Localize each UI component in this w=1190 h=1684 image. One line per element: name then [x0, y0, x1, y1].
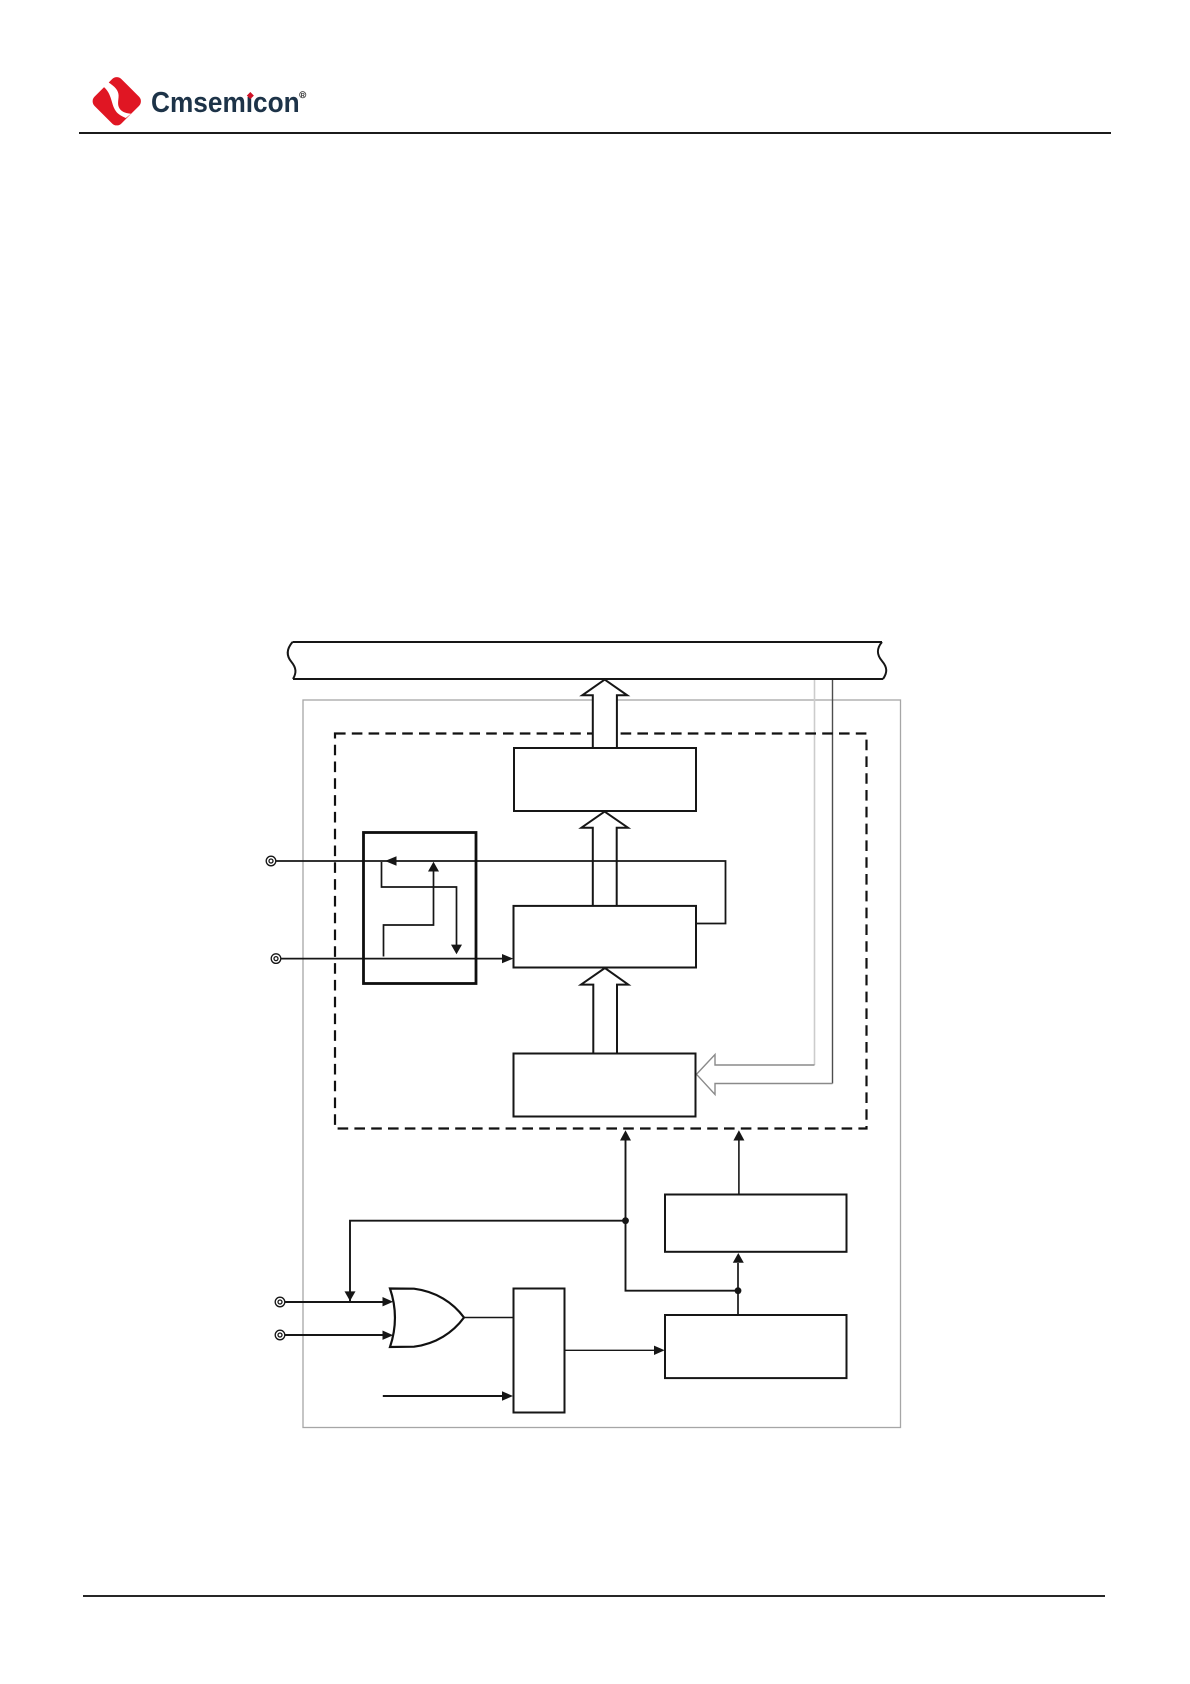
- clock request net: [737, 1263, 739, 1315]
- control block lower right: [665, 1315, 847, 1378]
- block arrow low: [581, 968, 628, 1054]
- junction dot B: [735, 1287, 742, 1294]
- swap path upper arrowhead: [451, 945, 462, 955]
- net line2 arrowhead: [502, 954, 513, 963]
- open block arrow into data register: [697, 1055, 833, 1095]
- peripheral outer boundary: [303, 700, 901, 1428]
- net line1: [276, 861, 726, 924]
- header rule: [79, 132, 1111, 134]
- net line2: [281, 958, 503, 960]
- logo i-dot diamond: [247, 92, 254, 99]
- module dashed boundary: [335, 734, 867, 1129]
- net line4: [285, 1334, 383, 1336]
- logo mark: [88, 72, 150, 134]
- pin terminal 3: [275, 1297, 285, 1307]
- block arrow to bus: [582, 680, 627, 748]
- swap path lower: [384, 872, 434, 957]
- net line3 arrowhead: [383, 1297, 394, 1306]
- bus tap wire light: [814, 680, 816, 1065]
- control block upper right: [665, 1195, 847, 1252]
- swap path upper: [382, 862, 457, 945]
- clock source arrowhead: [502, 1391, 513, 1400]
- junction dot A: [622, 1217, 629, 1224]
- clock source input net: [383, 1395, 503, 1397]
- prescaler output net: [565, 1349, 655, 1351]
- status net to dashed box: [738, 1141, 740, 1195]
- block arrow mid: [581, 812, 628, 906]
- register block top: [514, 748, 696, 811]
- net line4 arrowhead: [383, 1331, 394, 1340]
- pin terminal 4: [275, 1330, 285, 1340]
- feedback arrowhead: [345, 1291, 356, 1301]
- or gate U1: [390, 1289, 464, 1348]
- logo wordmark: [151, 88, 300, 116]
- net line3: [285, 1301, 383, 1303]
- registered trademark: [299, 91, 309, 101]
- pin terminal 1: [266, 856, 276, 866]
- register block middle: [514, 906, 697, 968]
- enable net vertical: [626, 1140, 739, 1291]
- feedback net: [350, 1221, 626, 1301]
- status net arrowhead: [733, 1130, 744, 1140]
- prescaler tall block: [514, 1289, 565, 1413]
- footer rule: [83, 1595, 1105, 1597]
- clock request arrowhead: [733, 1253, 744, 1263]
- bus tap wire dark: [832, 680, 834, 1084]
- prescaler output arrowhead: [654, 1346, 665, 1355]
- register block bottom: [514, 1054, 696, 1117]
- pin swap box: [364, 833, 477, 984]
- swap path lower arrowhead: [428, 862, 439, 872]
- or gate output net: [464, 1317, 514, 1319]
- pin terminal 2: [271, 954, 281, 964]
- net line1 arrowhead: [385, 856, 397, 865]
- enable net arrowhead: [620, 1130, 631, 1140]
- system bus: [288, 642, 887, 679]
